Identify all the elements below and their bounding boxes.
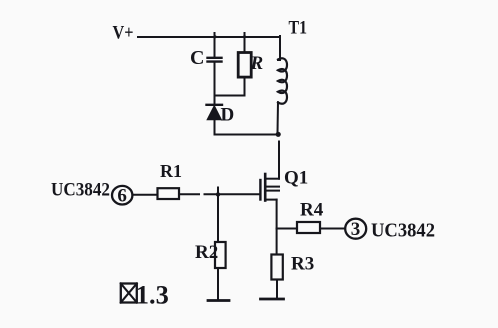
svg-text:V+: V+ [113, 23, 134, 44]
svg-text:T1: T1 [289, 18, 308, 39]
svg-text:R2: R2 [195, 242, 218, 263]
svg-text:R3: R3 [291, 254, 314, 275]
svg-text:R4: R4 [300, 200, 324, 221]
svg-text:C: C [190, 47, 204, 69]
svg-text:6: 6 [117, 186, 127, 207]
svg-text:D: D [221, 105, 235, 126]
svg-text:UC3842: UC3842 [51, 180, 110, 201]
svg-text:R1: R1 [160, 161, 182, 181]
svg-text:Q1: Q1 [284, 168, 308, 189]
svg-text:R: R [250, 53, 264, 74]
svg-text:3: 3 [351, 219, 361, 240]
svg-text:1.3: 1.3 [136, 281, 169, 310]
svg-text:UC3842: UC3842 [371, 220, 435, 242]
